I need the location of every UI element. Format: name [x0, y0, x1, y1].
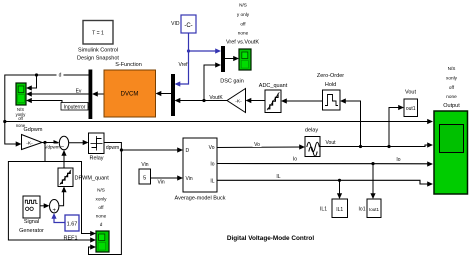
svg-text:−: − — [61, 145, 65, 151]
svg-text:Vref vs.VoutK: Vref vs.VoutK — [226, 40, 259, 46]
scope1 DVCM signals — [16, 83, 26, 105]
svg-text:d: d — [59, 73, 62, 79]
wire dpwm branch down to scope3 input3 — [89, 150, 122, 255]
label d — [57, 71, 64, 78]
constant VID — [171, 15, 196, 33]
svg-text:y only: y only — [237, 12, 250, 17]
node VoutK junction — [202, 99, 205, 102]
transport delay block — [305, 128, 336, 157]
label scope2 settings — [237, 3, 250, 36]
node Vref junction — [187, 49, 190, 52]
wire Vdpwm tap down and to scope3 inputs — [8, 143, 94, 241]
goto IL1 — [320, 199, 347, 218]
svg-text:Iout1: Iout1 — [369, 207, 380, 212]
svg-text:xonly: xonly — [96, 197, 108, 202]
svg-text:IL1: IL1 — [320, 207, 327, 213]
svg-text:Gdpwm: Gdpwm — [24, 127, 43, 133]
wire Ev demux to scope1 input2 — [28, 93, 89, 95]
svg-text:Hold: Hold — [325, 82, 336, 88]
svg-text:off: off — [240, 22, 246, 27]
svg-text:Signal: Signal — [24, 219, 39, 225]
goto Iout1 — [359, 199, 381, 218]
mux U2 into DVCM — [171, 74, 175, 116]
demux U3 from DVCM — [89, 70, 93, 120]
svg-text:none: none — [238, 31, 249, 36]
svg-text:REF1: REF1 — [63, 236, 77, 242]
svg-text:N/S: N/S — [239, 3, 247, 8]
svg-text:out1: out1 — [406, 106, 416, 112]
wire IL branch down to IL1 — [339, 180, 341, 197]
svg-text:Output: Output — [443, 103, 460, 109]
label Vdpwm — [45, 144, 61, 150]
node d-branch junction — [35, 73, 38, 76]
svg-text:IL: IL — [276, 174, 280, 180]
svg-text:+: + — [52, 208, 56, 214]
wire ADC_quant output to DSC gain — [247, 100, 265, 102]
wire Vref blue branch to mux1 — [189, 50, 220, 52]
svg-text:1.67: 1.67 — [67, 222, 78, 228]
svg-text:-K-: -K- — [26, 141, 33, 147]
subsystem Average-model Buck — [175, 138, 226, 202]
svg-text:Generator: Generator — [19, 228, 44, 234]
wire VoutK from DSC gain to mux2 — [176, 100, 227, 102]
wire gain d arrow into Gdpwm — [16, 141, 22, 146]
quantizer ADC_quant — [259, 83, 288, 113]
svg-text:D: D — [186, 148, 190, 154]
svg-text:DVCM: DVCM — [121, 92, 139, 98]
svg-text:Io: Io — [210, 162, 214, 168]
svg-text:-K-: -K- — [235, 99, 242, 105]
svg-text:delay: delay — [305, 128, 318, 134]
label Inputerror boxed — [61, 103, 88, 111]
label Output scope settings — [446, 66, 458, 99]
svg-text:-C-: -C- — [184, 23, 192, 29]
svg-text:Io1: Io1 — [359, 207, 366, 213]
scope3 d — [96, 231, 109, 252]
label scope3 settings — [96, 188, 108, 228]
zero-order hold — [317, 73, 344, 110]
scope Vref vs VoutK — [239, 49, 251, 70]
wire Vout branch up to out1 — [389, 108, 403, 147]
wire Vout from delay to Output scope input2 — [320, 145, 432, 147]
wire IL from Buck to Output scope input4 — [217, 180, 432, 184]
wire DPWM_quant output up to sum1 — [63, 151, 65, 168]
svg-text:Zero-Order: Zero-Order — [317, 73, 344, 79]
wire Vin constant to Buck — [151, 177, 182, 179]
svg-text:xonly: xonly — [446, 76, 458, 81]
svg-text:off: off — [449, 85, 455, 90]
wire Inputerror demux to scope1 input3 — [28, 101, 89, 108]
node Vout junction at out1 branch — [387, 145, 390, 148]
svg-text:Vref: Vref — [179, 62, 189, 68]
svg-text:VID: VID — [171, 21, 180, 27]
mux U1 for Vref vs VoutK — [221, 46, 225, 72]
svg-text:none: none — [96, 214, 107, 219]
svg-text:T = 1: T = 1 — [92, 31, 104, 37]
svg-text:Ev: Ev — [76, 89, 82, 95]
svg-text:Vo: Vo — [254, 142, 260, 148]
wire Signal Generator to sum2 — [40, 205, 48, 207]
wire REF1 to sum2 blue — [54, 215, 65, 223]
wire sum1 output to Relay — [69, 142, 87, 144]
wire mux1 output to scope2 — [225, 58, 238, 60]
svg-text:Digital Voltage-Mode Control: Digital Voltage-Mode Control — [227, 235, 314, 242]
wire Vout feedback up to Zero-Order Hold — [342, 101, 361, 147]
svg-text:dpwm: dpwm — [106, 145, 119, 151]
wire Io from Buck to Output scope input3 — [217, 163, 432, 165]
svg-text:Io: Io — [293, 157, 297, 163]
svg-text:off: off — [98, 205, 104, 210]
wire ZOH output to ADC_quant — [283, 100, 323, 102]
svg-text:Io: Io — [396, 157, 400, 163]
svg-text:Vin: Vin — [141, 162, 148, 168]
wire sum2 output up to DPWM_quant — [59, 188, 64, 206]
signal generator — [19, 196, 44, 234]
s-function DVCM — [104, 70, 156, 117]
scope Output — [434, 111, 468, 194]
svg-text:VoutK: VoutK — [209, 95, 223, 101]
svg-text:5: 5 — [143, 176, 146, 182]
svg-text:S-Function: S-Function — [115, 62, 142, 68]
svg-text:N/S: N/S — [97, 188, 105, 193]
svg-text:Vin: Vin — [158, 180, 165, 186]
svg-text:IL1: IL1 — [336, 207, 343, 213]
svg-text:d: d — [100, 222, 103, 227]
sum S1 — [59, 136, 68, 150]
label Vo — [253, 141, 262, 147]
wire d feedback from demux to Gdpwm gain — [5, 75, 89, 144]
svg-text:IL: IL — [210, 179, 214, 185]
svg-text:N/S: N/S — [448, 66, 456, 71]
svg-text:Average-model Buck: Average-model Buck — [175, 196, 226, 202]
wire mux2 output into DVCM — [157, 93, 171, 95]
gain Gdpwm — [22, 135, 43, 150]
svg-text:Vin: Vin — [186, 176, 193, 182]
sum S2 — [50, 200, 59, 215]
wire Vo from Buck to delay — [217, 146, 304, 149]
svg-text:DSC gain: DSC gain — [220, 79, 244, 85]
wire dpwm from Relay to Buck D — [104, 143, 182, 151]
constant REF1 1.67 — [63, 215, 79, 242]
wire Gdpwm gain output to sum1 — [42, 142, 58, 144]
wire long d to Output scope input1 — [5, 121, 429, 123]
quantizer DPWM_quant — [58, 168, 109, 187]
gain DSC gain — [220, 79, 245, 113]
svg-text:Vo: Vo — [209, 145, 215, 151]
outport out1 Vout — [404, 90, 418, 117]
svg-text:Relay: Relay — [89, 156, 103, 162]
label scope1 settings — [16, 107, 27, 128]
svg-text:none: none — [446, 94, 457, 99]
svg-text:ADC_quant: ADC_quant — [259, 83, 288, 89]
svg-text:Inputerror: Inputerror — [64, 105, 86, 111]
block T=1 Simulink Control Design Snapshot — [77, 21, 119, 62]
wire VoutK branch up to mux1 — [204, 65, 220, 101]
wire VID blue vertical and to mux2 — [176, 33, 189, 84]
svg-text:Vout: Vout — [325, 140, 336, 146]
wire d branch into scope1 input1 — [28, 75, 37, 88]
svg-text:DPWM_quant: DPWM_quant — [75, 176, 110, 182]
relay block — [89, 133, 105, 162]
constant Vin 5 — [139, 162, 165, 186]
svg-text:Simulink Control: Simulink Control — [78, 48, 118, 54]
node d long-wire junction — [3, 120, 6, 123]
svg-text:Design Snapshot: Design Snapshot — [77, 56, 119, 62]
svg-text:Vdpwm: Vdpwm — [44, 145, 59, 150]
svg-text:Vout: Vout — [405, 90, 416, 96]
wire DVCM output to demux — [94, 93, 105, 95]
wire Io branch down to Iout1 — [372, 164, 374, 198]
